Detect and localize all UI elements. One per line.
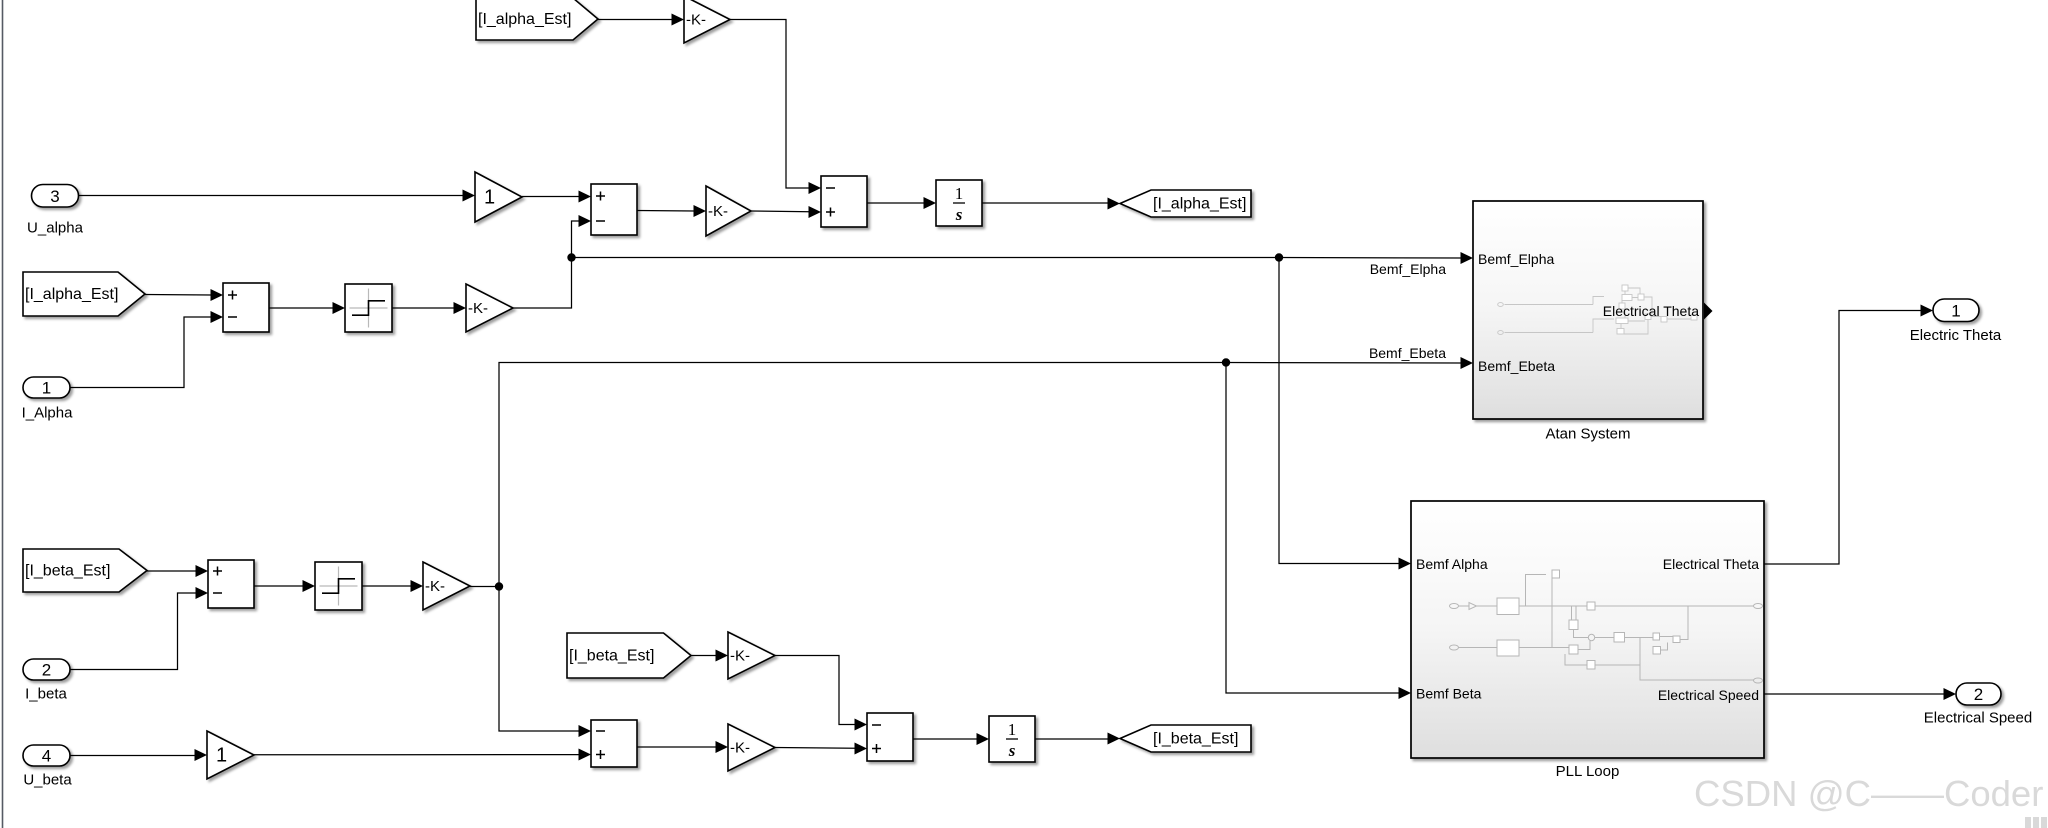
from tag [I_beta_Est] left — [23, 549, 147, 592]
arrowhead — [977, 733, 990, 745]
svg-text:Bemf Alpha: Bemf Alpha — [1416, 556, 1488, 572]
svg-text:U_beta: U_beta — [23, 772, 72, 789]
svg-text:Bemf_Elpha: Bemf_Elpha — [1478, 251, 1554, 267]
input port 1 I_Alpha — [22, 377, 74, 422]
svg-text:-K-: -K- — [468, 300, 488, 317]
wire — [730, 20, 810, 189]
svg-text:[I_beta_Est]: [I_beta_Est] — [1153, 731, 1238, 748]
svg-text:[I_beta_Est]: [I_beta_Est] — [25, 563, 110, 580]
wire — [70, 755, 196, 757]
integrator 1/s I2 — [989, 716, 1035, 762]
goto tag [I_alpha_Est] right — [1120, 190, 1251, 217]
gain -K- G7 — [728, 724, 775, 771]
arrowhead — [579, 725, 592, 737]
from tag [I_beta_Est] mid — [567, 633, 691, 678]
arrowhead — [716, 650, 729, 662]
svg-text:Bemf_Elpha: Bemf_Elpha — [1370, 261, 1446, 277]
wire Sum5 to gain — [637, 746, 717, 748]
arrowhead — [411, 580, 424, 592]
svg-text:Electrical Theta: Electrical Theta — [1603, 303, 1699, 319]
subsystem PLL Loop — [1411, 501, 1764, 780]
wire Bemf_Elpha to Atan System — [1279, 257, 1462, 260]
input port 2 I_beta — [23, 659, 70, 703]
svg-text:Bemf_Ebeta: Bemf_Ebeta — [1478, 358, 1555, 374]
arrowhead — [195, 749, 208, 761]
wire Sum4 to sign block — [254, 585, 304, 587]
svg-text:Atan System: Atan System — [1545, 426, 1630, 443]
sum block Sum6 — [867, 713, 913, 761]
wire — [470, 586, 499, 588]
arrowhead — [809, 206, 822, 218]
wire Sum3 to sign block — [269, 307, 334, 309]
svg-text:CSDN @C——Coder: CSDN @C——Coder — [1694, 773, 2043, 814]
svg-text:-K-: -K- — [730, 740, 750, 757]
sum block Sum2 — [821, 176, 867, 227]
arrowhead — [1921, 305, 1934, 317]
gain -K- G5 — [423, 562, 470, 610]
svg-text:PLL Loop: PLL Loop — [1556, 763, 1620, 780]
sign block Sign2 — [315, 562, 362, 610]
arrowhead — [1108, 198, 1121, 210]
arrowhead — [1108, 733, 1121, 745]
arrowhead — [716, 741, 729, 753]
wire U_alpha to gain — [79, 195, 465, 197]
goto tag [I_beta_Est] right — [1120, 725, 1251, 752]
arrowhead — [1399, 687, 1412, 699]
junction dot — [567, 253, 575, 261]
svg-text:I_Alpha: I_Alpha — [22, 405, 74, 422]
arrowhead — [333, 302, 346, 314]
arrowhead — [303, 580, 316, 592]
svg-text:Electrical Speed: Electrical Speed — [1658, 687, 1759, 703]
svg-text:-K-: -K- — [686, 12, 706, 29]
wire gain to Sum6 minus input — [775, 656, 856, 725]
wire — [522, 196, 579, 198]
wire I_Alpha to Sum3 — [70, 317, 212, 388]
wire gain to Sum5 — [254, 754, 579, 756]
svg-text:1: 1 — [42, 379, 51, 398]
output port 1 Electric Theta — [1910, 299, 2002, 344]
arrowhead — [855, 743, 868, 755]
gain -K- G4 — [466, 284, 513, 332]
output port 2 Electrical Speed — [1924, 683, 2032, 727]
arrowhead — [1944, 688, 1957, 700]
input port 3 U_alpha — [27, 185, 84, 237]
svg-text:Electrical Speed: Electrical Speed — [1924, 710, 2032, 727]
arrowhead — [672, 14, 685, 26]
wire integrator to goto tag — [982, 202, 1109, 204]
arrowhead — [196, 587, 209, 599]
wire integrator to goto tag — [1035, 738, 1109, 740]
gain G2 unity — [475, 172, 522, 222]
arrowhead — [694, 205, 707, 217]
input port 4 U_beta — [23, 745, 72, 789]
wire Bemf_Elpha net — [572, 257, 1280, 259]
sum block Sum1 — [591, 184, 637, 235]
svg-text:1: 1 — [955, 184, 964, 203]
wire Bemf_Ebeta to Atan System — [1226, 362, 1462, 365]
arrowhead — [463, 190, 476, 202]
arrowhead — [1461, 252, 1474, 264]
sum block Sum5 — [591, 720, 637, 767]
wire to Sum5 minus input — [499, 587, 579, 732]
svg-text:s: s — [955, 205, 963, 224]
wire Electrical Theta to port 1 — [1764, 311, 1921, 565]
arrowhead — [1399, 558, 1412, 570]
wire Sum1 to gain — [637, 210, 695, 213]
wire — [751, 210, 810, 213]
svg-text:Bemf Beta: Bemf Beta — [1416, 686, 1482, 702]
wire Sum2 to integrator — [867, 202, 924, 204]
svg-text:[I_beta_Est]: [I_beta_Est] — [569, 648, 654, 665]
arrowhead — [579, 749, 592, 761]
svg-text:Bemf_Ebeta: Bemf_Ebeta — [1369, 345, 1446, 361]
gain -K- G8 — [728, 632, 775, 679]
svg-text:-K-: -K- — [730, 648, 750, 665]
svg-text:2: 2 — [42, 661, 51, 680]
wire Bemf_Ebeta net — [499, 363, 1226, 587]
svg-text:[I_alpha_Est]: [I_alpha_Est] — [1153, 196, 1246, 213]
svg-text:[I_alpha_Est]: [I_alpha_Est] — [25, 286, 118, 303]
wire — [362, 585, 412, 587]
svg-text:-K-: -K- — [708, 203, 728, 220]
wire — [392, 307, 455, 309]
svg-text:U_alpha: U_alpha — [27, 220, 84, 237]
wire Bemf_Ebeta branch to PLL Loop — [1226, 363, 1400, 694]
arrowhead — [579, 215, 592, 227]
svg-text:2: 2 — [1974, 685, 1983, 704]
arrowhead — [924, 197, 937, 209]
arrowhead — [579, 191, 592, 203]
sum block Sum3 — [223, 283, 269, 332]
wire Electrical Speed to port 2 — [1764, 693, 1944, 695]
gain -K- G1 top — [684, 0, 730, 43]
junction dot — [1275, 253, 1283, 261]
wire gain feedback to Sum1 — [513, 221, 579, 308]
sum block Sum4 — [208, 560, 254, 608]
arrowhead — [211, 289, 224, 301]
arrowhead — [855, 719, 868, 731]
wire — [598, 19, 673, 21]
svg-text:s: s — [1008, 741, 1016, 760]
svg-text:1: 1 — [1008, 720, 1017, 739]
gain G6 unity — [207, 731, 254, 779]
svg-text:1: 1 — [216, 745, 227, 767]
subsystem Atan System — [1473, 201, 1713, 443]
junction dot — [1222, 358, 1230, 366]
junction dot — [495, 582, 503, 590]
wire — [691, 655, 717, 657]
svg-text:1: 1 — [1951, 301, 1960, 320]
arrowhead — [454, 302, 467, 314]
watermark pixel marks — [2025, 817, 2047, 828]
arrowhead — [211, 311, 224, 323]
svg-text:I_beta: I_beta — [25, 686, 67, 703]
svg-text:[I_alpha_Est]: [I_alpha_Est] — [478, 11, 571, 28]
wire — [145, 294, 212, 297]
integrator 1/s I1 — [936, 180, 982, 226]
wire — [147, 570, 197, 572]
wire I_beta to Sum4 — [70, 593, 197, 670]
svg-text:Electrical Theta: Electrical Theta — [1663, 556, 1759, 572]
arrowhead — [196, 565, 209, 577]
wire Sum6 to integrator — [913, 738, 978, 740]
arrowhead — [809, 182, 822, 194]
gain -K- G3 — [706, 186, 751, 236]
from tag [I_alpha_Est] left — [23, 272, 145, 316]
svg-text:1: 1 — [484, 187, 495, 209]
canvas left border — [2, 0, 4, 828]
wire Bemf_Elpha branch to PLL Loop — [1279, 258, 1400, 564]
sign block Sign1 — [345, 284, 392, 332]
svg-text:-K-: -K- — [425, 578, 445, 595]
arrowhead — [1461, 357, 1474, 369]
svg-text:3: 3 — [50, 187, 59, 206]
wire gain to Sum6 plus input — [775, 747, 856, 750]
from tag [I_alpha_Est] top — [476, 0, 598, 40]
svg-text:4: 4 — [42, 747, 51, 766]
svg-text:Electric Theta: Electric Theta — [1910, 327, 2002, 344]
